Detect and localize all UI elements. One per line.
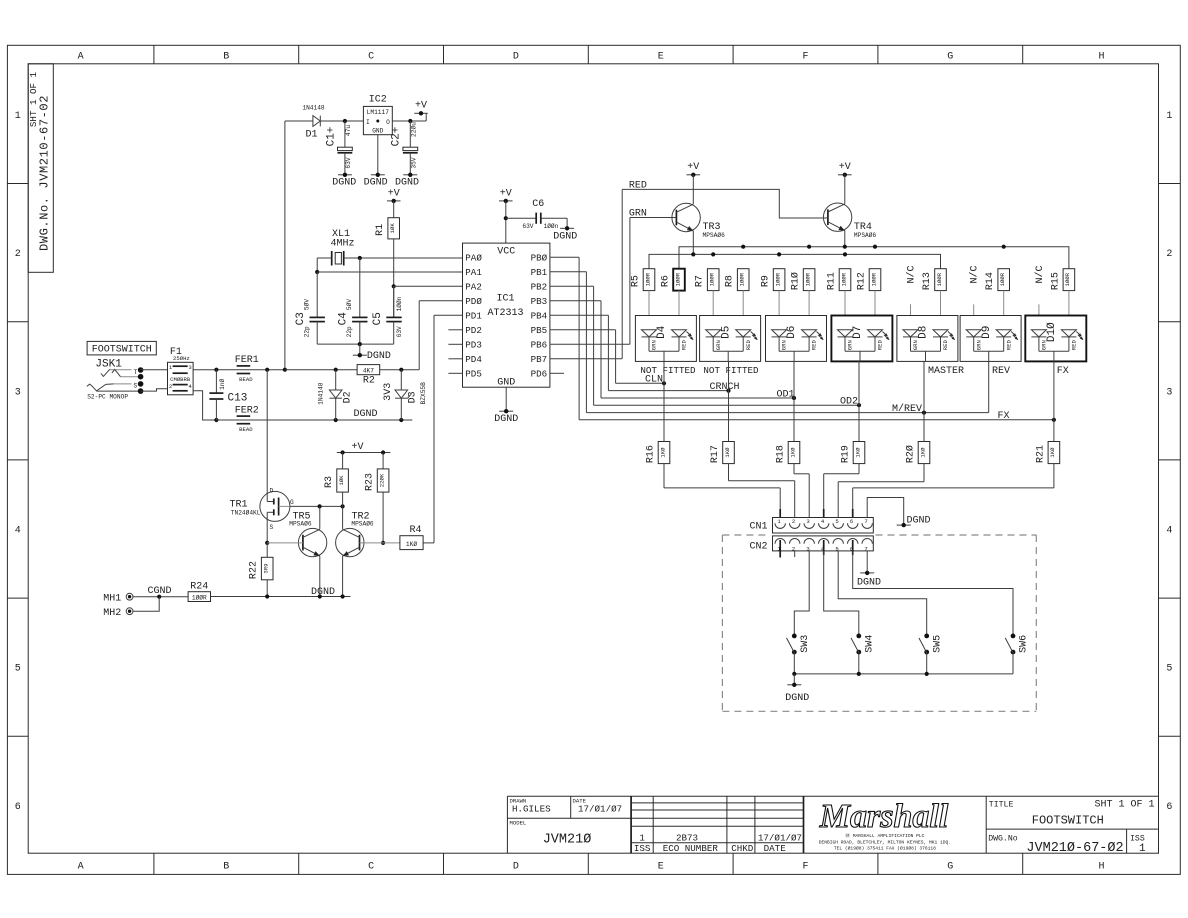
dual LED D10	[1025, 316, 1086, 362]
IC U1 AT2313 microcontroller	[463, 243, 550, 388]
resistor R6 100R	[661, 269, 685, 331]
svg-text:17/Ø1/Ø7: 17/Ø1/Ø7	[758, 832, 802, 843]
resistor R18 1K0	[776, 398, 810, 530]
svg-text:PB3: PB3	[531, 296, 548, 307]
ground DGND (C1)	[332, 173, 356, 189]
power +V (TR4)	[838, 162, 852, 177]
filter F1 CM0BRB 250Hz	[168, 347, 194, 395]
capacitor C13 1n0	[209, 370, 247, 420]
zener D3 3V3 BZX55B	[383, 370, 427, 420]
no-connect stub (D9 green)	[969, 265, 981, 330]
svg-text:GRN: GRN	[715, 340, 722, 350]
svg-text:G: G	[947, 861, 953, 872]
diode D2 1N4148	[318, 370, 354, 420]
svg-text:PB2: PB2	[531, 282, 548, 293]
svg-text:63V: 63V	[396, 326, 403, 337]
svg-text:R9: R9	[761, 275, 772, 287]
svg-text:4K7: 4K7	[363, 368, 374, 375]
svg-text:FX: FX	[997, 411, 1009, 422]
svg-text:3: 3	[1166, 387, 1172, 398]
svg-text:DGND: DGND	[553, 232, 577, 243]
svg-text:1ØØR: 1ØØR	[936, 272, 943, 286]
svg-text:D4: D4	[656, 325, 668, 339]
wire PB4 to net	[550, 315, 609, 390]
wire IC2 output to +V	[392, 113, 426, 123]
svg-text:+V: +V	[500, 188, 512, 199]
wire CN2 pin7 to DGND	[866, 551, 868, 573]
svg-text:CLN: CLN	[645, 375, 663, 386]
svg-text:C5: C5	[372, 312, 384, 325]
svg-text:OD1: OD1	[776, 389, 794, 400]
power +V (IC2 output)	[414, 100, 428, 115]
wire IC1 GND	[505, 387, 507, 411]
wire jack tip to F1	[141, 369, 168, 371]
capacitor C2 220u 35V	[391, 121, 418, 175]
title block ECO row	[634, 832, 802, 854]
svg-text:1ØØR: 1ØØR	[644, 272, 651, 286]
bold pin stubs CN2	[780, 540, 853, 558]
svg-text:ECO NUMBER: ECO NUMBER	[663, 843, 719, 854]
svg-text:D8: D8	[918, 326, 930, 339]
svg-text:6: 6	[1166, 802, 1172, 813]
svg-text:1KØ: 1KØ	[659, 447, 666, 458]
svg-text:R14: R14	[985, 272, 996, 290]
switch SW4	[824, 551, 876, 674]
svg-text:47u: 47u	[345, 125, 352, 136]
ground DGND (IC2)	[364, 173, 388, 189]
switch SW3	[787, 551, 811, 674]
svg-text:N/C: N/C	[906, 265, 918, 283]
ground DGND (CN1)	[897, 516, 931, 528]
svg-text:B: B	[223, 861, 229, 872]
svg-text:REV: REV	[992, 366, 1010, 377]
svg-text:5: 5	[15, 664, 21, 675]
label NOT FITTED (D5)	[703, 365, 759, 376]
svg-text:S: S	[269, 524, 273, 531]
net RED	[622, 180, 828, 218]
svg-text:3: 3	[806, 518, 809, 525]
svg-text:D2: D2	[342, 391, 353, 403]
svg-text:1: 1	[1139, 843, 1146, 855]
mount hole MH1	[103, 593, 133, 604]
svg-text:MPSAØ6: MPSAØ6	[351, 520, 374, 527]
svg-text:R24: R24	[190, 581, 208, 592]
svg-text:1: 1	[15, 111, 21, 122]
svg-text:FOOTSWITCH: FOOTSWITCH	[1032, 814, 1104, 828]
net OD2	[594, 361, 862, 407]
svg-text:MPSAØ6: MPSAØ6	[289, 520, 312, 527]
svg-text:DGND: DGND	[785, 693, 809, 704]
svg-text:CN2: CN2	[749, 542, 767, 553]
svg-text:1N4148: 1N4148	[302, 104, 325, 111]
wire D1 anode loop to footswitch line	[285, 121, 313, 370]
svg-text:SW6: SW6	[1019, 635, 1030, 653]
capacitor C4 22p 50V	[338, 258, 368, 344]
svg-text:R22: R22	[249, 561, 260, 579]
svg-text:7: 7	[864, 518, 867, 525]
svg-text:ISS: ISS	[634, 843, 651, 854]
ground DGND (switches)	[785, 683, 809, 705]
capacitor C6 100n 63V	[506, 199, 567, 230]
resistor R16 1K0	[646, 383, 781, 529]
wire DGND rail (transistors)	[211, 594, 351, 598]
svg-text:R19: R19	[841, 445, 852, 463]
svg-text:R18: R18	[776, 445, 787, 463]
svg-text:1ØØR: 1ØØR	[840, 272, 847, 286]
resistor R3 10K	[324, 453, 348, 507]
svg-text:+V: +V	[839, 162, 851, 173]
svg-text:6: 6	[15, 802, 21, 813]
svg-text:C4: C4	[338, 312, 350, 326]
Marshall logo	[819, 798, 951, 851]
svg-text:2: 2	[1166, 249, 1172, 260]
svg-text:RED: RED	[1071, 340, 1078, 351]
resistor R5 100R	[631, 269, 655, 331]
svg-text:R13: R13	[922, 272, 933, 290]
svg-text:22Øu: 22Øu	[410, 122, 417, 137]
transistor TR5 MPSA06	[267, 506, 327, 596]
svg-text:2: 2	[792, 518, 795, 525]
svg-text:PD6: PD6	[531, 369, 548, 380]
svg-text:PD2: PD2	[465, 325, 482, 336]
svg-text:JSK1: JSK1	[95, 359, 122, 371]
svg-text:2B73: 2B73	[676, 832, 698, 843]
wire PB6 to GRN	[550, 218, 630, 345]
wire XL1 to PA1	[315, 258, 462, 274]
svg-text:5ØV: 5ØV	[346, 299, 353, 310]
svg-text:1KØ: 1KØ	[789, 447, 796, 458]
wire PB3 to net	[550, 301, 601, 398]
jack JSK1	[87, 359, 144, 401]
wire jack sleeve to F1	[141, 389, 168, 391]
resistor R8 100R	[725, 269, 749, 331]
title block drawn/date	[510, 797, 623, 847]
svg-text:ISS: ISS	[1130, 835, 1145, 844]
resistor R23 220K	[365, 453, 389, 546]
ground DGND (crystal caps)	[353, 351, 391, 362]
svg-text:D6: D6	[786, 326, 798, 339]
svg-text:FER2: FER2	[235, 405, 259, 416]
svg-text:FOOTSWITCH: FOOTSWITCH	[92, 345, 152, 356]
net label DGND (TR rail)	[311, 587, 335, 598]
svg-text:D7: D7	[852, 326, 864, 339]
svg-text:MODEL: MODEL	[510, 819, 527, 826]
svg-text:1KØ: 1KØ	[406, 541, 417, 548]
DWG number block (vertical)	[28, 64, 53, 272]
dual LED D6	[766, 316, 827, 362]
pin stubs PD2-PD5	[448, 330, 462, 374]
svg-text:JVM21Ø-67-Ø2: JVM21Ø-67-Ø2	[1026, 841, 1123, 856]
svg-text:35V: 35V	[410, 157, 417, 168]
capacitor C3 22p 50V	[295, 272, 325, 344]
svg-text:1KØ: 1KØ	[724, 447, 731, 458]
wire main to TR1 drain	[266, 370, 268, 502]
svg-text:3V3: 3V3	[383, 383, 394, 401]
svg-text:C: C	[368, 861, 374, 872]
svg-text:MH1: MH1	[103, 593, 121, 604]
capacitor C1 47u 63V	[325, 121, 352, 175]
svg-text:R15: R15	[1050, 272, 1061, 290]
svg-text:25ØHz: 25ØHz	[173, 355, 190, 362]
svg-text:N/C: N/C	[969, 265, 981, 283]
svg-text:R12: R12	[857, 272, 868, 290]
resistor R11 100R	[827, 269, 851, 331]
wire PB7 to RED	[550, 189, 622, 358]
dual LED D4	[635, 316, 696, 362]
svg-text:C6: C6	[532, 199, 544, 210]
svg-text:RED: RED	[1005, 340, 1012, 351]
svg-text:BZX55B: BZX55B	[420, 382, 427, 405]
svg-text:SW5: SW5	[932, 635, 943, 653]
svg-text:3: 3	[188, 364, 191, 371]
label FX (LED)	[1057, 366, 1069, 377]
svg-text:+V: +V	[415, 100, 427, 111]
ground DGND (C6)	[553, 226, 577, 243]
svg-text:CHKD: CHKD	[731, 843, 754, 854]
ferrite bead FER2	[235, 405, 259, 433]
dashed remote box	[722, 535, 1036, 711]
svg-text:PD4: PD4	[465, 354, 482, 365]
wire main to D2	[285, 368, 357, 372]
svg-text:DGND: DGND	[367, 351, 391, 362]
svg-text:1ØØR: 1ØØR	[192, 594, 207, 601]
svg-text:GND: GND	[497, 377, 515, 388]
svg-text:GRN: GRN	[847, 340, 854, 350]
svg-text:G: G	[947, 52, 953, 63]
svg-text:DGND: DGND	[311, 587, 335, 598]
wire C3/C4/C5 ground rail	[317, 342, 394, 355]
net GRN	[629, 209, 677, 220]
svg-text:D3: D3	[408, 391, 419, 403]
svg-text:DATE: DATE	[764, 843, 787, 854]
mount hole MH2	[103, 608, 133, 619]
svg-text:SW4: SW4	[864, 635, 875, 653]
svg-text:22p: 22p	[303, 326, 310, 337]
svg-text:H: H	[1098, 52, 1104, 63]
power +V (TR3)	[687, 162, 701, 177]
svg-text:DGND: DGND	[332, 177, 356, 188]
svg-text:RED: RED	[745, 340, 752, 351]
svg-text:C13: C13	[228, 392, 248, 404]
svg-text:DGND: DGND	[494, 414, 518, 425]
svg-text:RED: RED	[942, 340, 949, 351]
svg-text:FER1: FER1	[235, 355, 259, 366]
svg-text:R4: R4	[409, 525, 421, 536]
transistor TR3 MPSA06	[672, 175, 725, 255]
svg-text:VCC: VCC	[497, 247, 515, 258]
power +V (R1)	[387, 188, 401, 203]
svg-text:CMØBRB: CMØBRB	[170, 376, 191, 383]
svg-text:A: A	[78, 861, 84, 872]
svg-text:R8: R8	[725, 275, 736, 287]
svg-text:R5: R5	[631, 275, 642, 287]
connector CN1	[749, 518, 873, 534]
svg-text:A: A	[78, 52, 84, 63]
svg-text:GRN: GRN	[651, 340, 658, 350]
svg-text:PB6: PB6	[531, 340, 548, 351]
svg-text:R23: R23	[365, 473, 376, 491]
svg-text:1ØK: 1ØK	[338, 475, 345, 486]
wire PB2 to net	[550, 286, 594, 405]
node PA2/RESET	[392, 284, 463, 317]
svg-text:PB5: PB5	[531, 325, 548, 336]
dual LED D9	[960, 316, 1021, 362]
svg-text:CN1: CN1	[749, 522, 767, 533]
svg-text:B: B	[223, 52, 229, 63]
resistor R19 1K0	[824, 405, 865, 529]
svg-text:1KØ: 1KØ	[854, 447, 861, 458]
net OD1	[601, 361, 796, 400]
wire PB1 to net	[550, 272, 587, 413]
net CRNCH	[608, 361, 739, 393]
label FOOTSWITCH	[87, 341, 156, 355]
wire PD1 to R4	[423, 315, 462, 543]
svg-text:PDØ: PDØ	[465, 296, 482, 307]
svg-text:JVM21Ø: JVM21Ø	[543, 832, 592, 847]
no-connect stub (D10 green)	[1034, 265, 1046, 330]
svg-text:PB4: PB4	[531, 311, 548, 322]
wire F1 out (bottom)	[193, 391, 218, 422]
svg-text:E: E	[658, 52, 664, 63]
wire D1 to IC2 input	[320, 119, 363, 123]
label MASTER	[928, 366, 964, 377]
svg-text:AT2313: AT2313	[487, 308, 523, 319]
power +V (VCC)	[499, 188, 513, 203]
svg-text:PAØ: PAØ	[465, 253, 482, 264]
wire XL1 to PA0	[344, 256, 463, 260]
svg-text:D: D	[513, 52, 519, 63]
svg-text:+V: +V	[388, 188, 400, 199]
svg-text:1ØØR: 1ØØR	[999, 272, 1006, 286]
svg-text:SHT 1 OF 1: SHT 1 OF 1	[1094, 800, 1154, 811]
svg-text:1ØØR: 1ØØR	[739, 272, 746, 286]
svg-text:R11: R11	[827, 272, 838, 290]
stub CN2 pin2	[794, 551, 796, 557]
svg-text:1KØ: 1KØ	[919, 447, 926, 458]
svg-text:63V: 63V	[345, 157, 352, 168]
svg-text:F: F	[802, 861, 808, 872]
svg-text:C3: C3	[295, 312, 307, 325]
svg-text:PA2: PA2	[465, 282, 482, 293]
svg-text:1KØ: 1KØ	[1049, 447, 1056, 458]
resistor R1 10K	[375, 201, 399, 286]
no-connect stub (D8 green)	[906, 265, 918, 330]
svg-text:PA1: PA1	[465, 267, 482, 278]
switch SW6	[853, 551, 1030, 674]
svg-text:D5: D5	[720, 326, 732, 339]
svg-text:1ØØn: 1ØØn	[544, 223, 559, 230]
svg-text:MH2: MH2	[103, 608, 121, 619]
svg-text:G: G	[290, 499, 294, 506]
svg-text:D1: D1	[305, 130, 317, 141]
wire GRN rail	[649, 252, 941, 268]
svg-text:S: S	[133, 383, 137, 390]
svg-text:PD1: PD1	[465, 311, 482, 322]
dual LED D7	[831, 316, 892, 362]
svg-text:F: F	[802, 52, 808, 63]
svg-text:R6: R6	[661, 275, 672, 287]
svg-text:+V: +V	[687, 162, 699, 173]
resistor R7 100R	[695, 269, 719, 331]
svg-text:DGND: DGND	[364, 177, 388, 188]
resistor R9 100R	[761, 269, 785, 331]
svg-text:I: I	[366, 119, 370, 126]
svg-text:M/REV: M/REV	[892, 403, 922, 415]
svg-text:D9: D9	[981, 326, 993, 339]
svg-text:PD5: PD5	[465, 369, 482, 380]
wire TR1 source	[265, 521, 269, 545]
svg-text:PD3: PD3	[465, 340, 482, 351]
resistor R15 100R	[1050, 269, 1074, 331]
dual LED D8	[897, 316, 958, 362]
svg-text:Marshall: Marshall	[819, 798, 949, 835]
svg-text:5: 5	[835, 518, 838, 525]
resistor R13 100R	[922, 269, 946, 331]
wire DGND rail (lower)	[216, 418, 412, 422]
svg-text:R21: R21	[1035, 445, 1046, 463]
svg-text:GRN: GRN	[912, 340, 919, 350]
svg-text:1nØ: 1nØ	[219, 378, 226, 389]
transistor TR2 MPSA06	[336, 506, 400, 596]
label REV	[992, 366, 1010, 377]
svg-text:R3: R3	[324, 476, 335, 488]
svg-text:22p: 22p	[346, 326, 353, 337]
svg-text:1ØØR: 1ØØR	[709, 272, 716, 286]
wire F1 out (top)	[193, 368, 287, 372]
svg-text:IC2: IC2	[369, 95, 387, 106]
wire IC2 GND pin	[377, 135, 379, 175]
svg-text:PBØ: PBØ	[531, 253, 548, 264]
svg-text:BEAD: BEAD	[239, 376, 253, 383]
svg-text:N/C: N/C	[1034, 265, 1046, 283]
svg-text:R16: R16	[646, 445, 657, 463]
svg-text:GRN: GRN	[975, 340, 982, 350]
ground DGND (CN2)	[857, 571, 881, 589]
node CGND	[133, 586, 188, 611]
resistor R17 1K0	[710, 391, 795, 530]
svg-text:PB1: PB1	[531, 267, 548, 278]
svg-text:1ØK: 1ØK	[389, 223, 396, 234]
resistor R20 1K0	[838, 413, 930, 530]
resistor R12 100R	[857, 269, 881, 331]
svg-text:DWG.No. JVM210-67-02: DWG.No. JVM210-67-02	[37, 95, 51, 251]
svg-text:R17: R17	[710, 445, 721, 463]
svg-text:R2: R2	[363, 376, 375, 387]
svg-text:1: 1	[639, 832, 645, 843]
wire RED rail	[679, 245, 1069, 269]
svg-text:4: 4	[15, 526, 21, 537]
svg-text:3R9: 3R9	[263, 564, 270, 574]
svg-text:1ØØR: 1ØØR	[804, 272, 811, 286]
svg-text:NOT FITTED: NOT FITTED	[703, 365, 759, 376]
wire PB5 to net	[550, 330, 616, 384]
svg-text:RED: RED	[877, 340, 884, 351]
svg-text:4MHz: 4MHz	[330, 238, 354, 249]
svg-text:R7: R7	[695, 275, 706, 287]
resistor R4 1K0	[400, 525, 423, 550]
svg-text:Ⓜ MARSHALL AMPLIFICATION PLC: Ⓜ MARSHALL AMPLIFICATION PLC	[845, 832, 924, 839]
resistor R21 1K0	[853, 420, 1060, 530]
svg-text:2: 2	[15, 249, 21, 260]
svg-text:1N4148: 1N4148	[318, 382, 325, 405]
wire CN1 pin7 to DGND	[867, 498, 904, 526]
svg-text:R2Ø: R2Ø	[905, 445, 917, 463]
svg-text:O: O	[386, 119, 390, 126]
power +V (R3/R23)	[337, 442, 391, 455]
resistor R14 100R	[985, 269, 1009, 331]
resistor R10 100R	[790, 269, 815, 331]
svg-text:IC1: IC1	[496, 294, 514, 305]
